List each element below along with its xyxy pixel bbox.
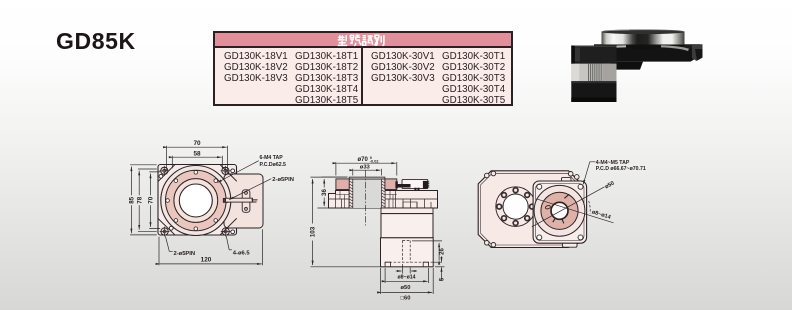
section view: boss top cap <box>349 177 385 179</box>
bottom view: output tap holes ring <box>497 188 535 226</box>
section view: bracket pin left (black L) <box>395 181 410 188</box>
svg-text:36: 36 <box>321 189 328 196</box>
section view: hidden shaft hole (dashed) <box>385 241 429 267</box>
front view: corner hole TL <box>160 166 169 175</box>
model list column 1a <box>224 51 288 84</box>
svg-text:70: 70 <box>193 140 201 147</box>
svg-text:P.C.D ø66.67~ø70.71: P.C.D ø66.67~ø70.71 <box>596 166 646 172</box>
model list column 2b <box>442 51 505 106</box>
dimension 58 top <box>172 156 222 168</box>
section view: center axis line <box>365 171 367 226</box>
label 2-o5PIN bottom with leader <box>166 237 173 252</box>
svg-text:26: 26 <box>439 248 445 255</box>
front view: corner hole BL <box>160 227 169 236</box>
svg-text:□60: □60 <box>401 296 411 302</box>
photo: plate right end block <box>692 44 703 61</box>
front view: corner chamfer TL <box>158 165 175 182</box>
svg-text:ø33: ø33 <box>360 164 371 170</box>
svg-text:58: 58 <box>193 150 201 157</box>
svg-text:78: 78 <box>136 196 143 203</box>
header CJK glyph 識 <box>363 35 374 45</box>
svg-text:ø8~ø14: ø8~ø14 <box>397 274 415 280</box>
svg-text:103: 103 <box>310 226 317 237</box>
svg-text:2-ø5PIN: 2-ø5PIN <box>174 251 196 257</box>
svg-text:4-ø6.5: 4-ø6.5 <box>233 250 251 256</box>
svg-text:ø70: ø70 <box>358 157 369 163</box>
photo: plate front-edge highlight left <box>598 45 626 49</box>
dimension o33 <box>353 169 382 176</box>
section view: left bearing block (pink) <box>336 179 349 190</box>
bottom view: motor corner hole BR <box>578 235 583 240</box>
table header bar <box>215 33 511 48</box>
section view: slab mid line <box>329 198 438 200</box>
photo: motor bottom block <box>571 81 616 102</box>
bottom view: motor face square <box>533 181 587 243</box>
front view: 6-M4 tap holes + pins on bolt circle <box>166 171 218 231</box>
bottom view: motor face inner edge <box>536 184 584 241</box>
bottom view: motor corner hole TR <box>578 184 583 189</box>
svg-text:85: 85 <box>129 196 136 203</box>
dimension 26 right <box>412 241 442 262</box>
dimension 70 left <box>150 172 161 229</box>
bottom view: motor square top bump <box>562 178 572 184</box>
front view: bracket hole bottom <box>245 208 248 211</box>
svg-text:70: 70 <box>148 196 155 203</box>
section view: right bearing block (pink) <box>385 179 397 190</box>
model table <box>213 31 513 106</box>
label 2-o5PIN right with leader <box>230 179 272 200</box>
section view: motor adapter band <box>381 208 433 214</box>
front view: corner chamfer TR <box>220 165 237 182</box>
table column divider <box>361 48 363 104</box>
front view: pin hole TL <box>159 174 163 178</box>
dimension 78 left <box>138 169 156 231</box>
dimension 85 left <box>130 165 156 235</box>
front view: side attachment housing <box>224 174 263 228</box>
bolt circle PCD dashed arc <box>589 201 591 214</box>
front view: pink flange ring <box>166 170 227 231</box>
bottom view: coupling spoke lower-right <box>562 219 564 224</box>
bottom view: output bore circle <box>503 194 528 219</box>
svg-text:P.C.Dø62.5: P.C.Dø62.5 <box>260 162 287 168</box>
model list column 1b <box>295 51 358 106</box>
bottom view: motor corner hole BL <box>537 235 542 240</box>
leader o50 <box>532 187 605 227</box>
section view: recess notch right <box>423 262 428 267</box>
svg-text:-0.02: -0.02 <box>370 160 379 164</box>
dimension 103 left <box>311 177 381 267</box>
front view: pin hole TR <box>231 169 235 173</box>
bottom view: plate inner edge line <box>481 173 579 245</box>
front view: side bracket plate <box>242 190 250 213</box>
section view: bracket pin right (black) <box>423 181 428 189</box>
dimension o70 with tolerance <box>336 162 397 176</box>
section view: bracket feet <box>414 188 416 191</box>
product photo group <box>571 30 702 102</box>
section view: slab vertical details <box>336 191 432 209</box>
dimension square60 bottom <box>381 268 434 294</box>
header CJK glyph 型 <box>338 35 348 45</box>
bottom view: output bolt circle outline <box>496 187 536 227</box>
label 6-M4 TAP with leader <box>218 161 259 183</box>
front view: pin hole BR <box>231 230 235 234</box>
photo: disc top rim <box>602 30 685 34</box>
front view: corner hole BR <box>221 227 230 236</box>
label 4-o6.5 bottom with leader <box>226 236 232 250</box>
dimension 5 right <box>435 256 445 281</box>
bottom view: corner screw pair TR <box>568 172 573 177</box>
bottom view: large plate octagon <box>478 171 581 248</box>
section view: motor body upper <box>381 214 433 238</box>
section view: boss bore (through hole, gray) <box>353 179 382 208</box>
front view: outer bearing circle <box>161 166 231 236</box>
bottom view: motor square bottom tab <box>563 239 578 247</box>
photo: flange plate front face <box>592 48 703 62</box>
svg-text:120: 120 <box>201 257 212 264</box>
header CJK glyph 號 <box>350 35 360 46</box>
photo: flange plate top face <box>594 44 700 48</box>
front view: output pin at 0deg <box>223 198 228 202</box>
section view: recess notch left <box>385 262 390 267</box>
section view: boss left wall (serrated) <box>349 179 353 208</box>
section view: top bracket outline box <box>402 179 428 188</box>
section view: small step box in slab <box>403 202 417 208</box>
bottom view: coupling ring (salmon) <box>541 192 578 229</box>
front view: output shaft bar <box>226 198 253 202</box>
front view: inner light ring <box>174 179 218 223</box>
section view: bearing sub-boxes left <box>336 190 349 209</box>
dimension 36 left <box>318 177 349 208</box>
bottom view: corner screw pair BL <box>485 241 490 246</box>
photo: motor gear head <box>571 46 616 64</box>
section view: bearing sub-boxes right <box>385 190 397 209</box>
leader o8~o14 <box>536 199 613 223</box>
bottom view: coupling spoke upper-right <box>564 194 569 198</box>
svg-text:2-ø5PIN: 2-ø5PIN <box>272 177 294 183</box>
front view: corner chamfer BL <box>158 219 175 236</box>
front view: bracket hole top <box>245 192 248 195</box>
front view: corner chamfer BR <box>220 219 237 236</box>
photo: plate front-edge highlight right <box>661 45 689 51</box>
front view: center bore <box>179 184 212 217</box>
bottom view: motor corner hole TL <box>537 184 542 189</box>
svg-text:6-M4 TAP: 6-M4 TAP <box>260 155 284 161</box>
svg-text:ø50: ø50 <box>401 285 411 291</box>
section view: flange slab <box>329 191 438 209</box>
dimension o8~o14 bottom <box>396 264 417 274</box>
svg-text:ø50: ø50 <box>604 181 615 191</box>
photo: disc lower shadow band <box>602 45 685 49</box>
header CJK glyph 別 <box>375 35 384 45</box>
bottom view: pilot circle o50 <box>534 185 585 236</box>
section view: boss right wall (serrated) <box>382 179 386 208</box>
svg-text:5: 5 <box>440 277 446 281</box>
bottom view: corner screw pair TL <box>485 173 490 178</box>
section view: serration hatch right <box>382 181 386 207</box>
dimension o50 bottom <box>385 268 429 283</box>
section view: serration hatch left <box>349 181 353 207</box>
dimension 120 bottom <box>159 230 263 266</box>
bottom view: shaft bore hub <box>551 202 568 219</box>
front view: corner hole TR <box>221 166 230 175</box>
bottom view: coupling spoke lower-left <box>553 218 556 222</box>
front view: shaft tip line <box>252 200 257 202</box>
section view: pin right serration <box>428 182 429 188</box>
section view: motor body lower <box>381 238 434 267</box>
label 4-M4~M5 TAP with leader <box>583 162 595 185</box>
dimension 70 top <box>167 146 228 171</box>
model list column 2a <box>371 51 435 84</box>
photo: boss under plate <box>610 62 643 70</box>
title GD85K <box>56 28 136 55</box>
bottom view: corner screw pair BR <box>568 242 573 247</box>
photo: motor silver band <box>571 64 616 81</box>
front view: square flange plate <box>158 165 237 236</box>
front view: pin hole BL <box>169 226 173 230</box>
bottom view: set screw tab left <box>545 205 551 210</box>
